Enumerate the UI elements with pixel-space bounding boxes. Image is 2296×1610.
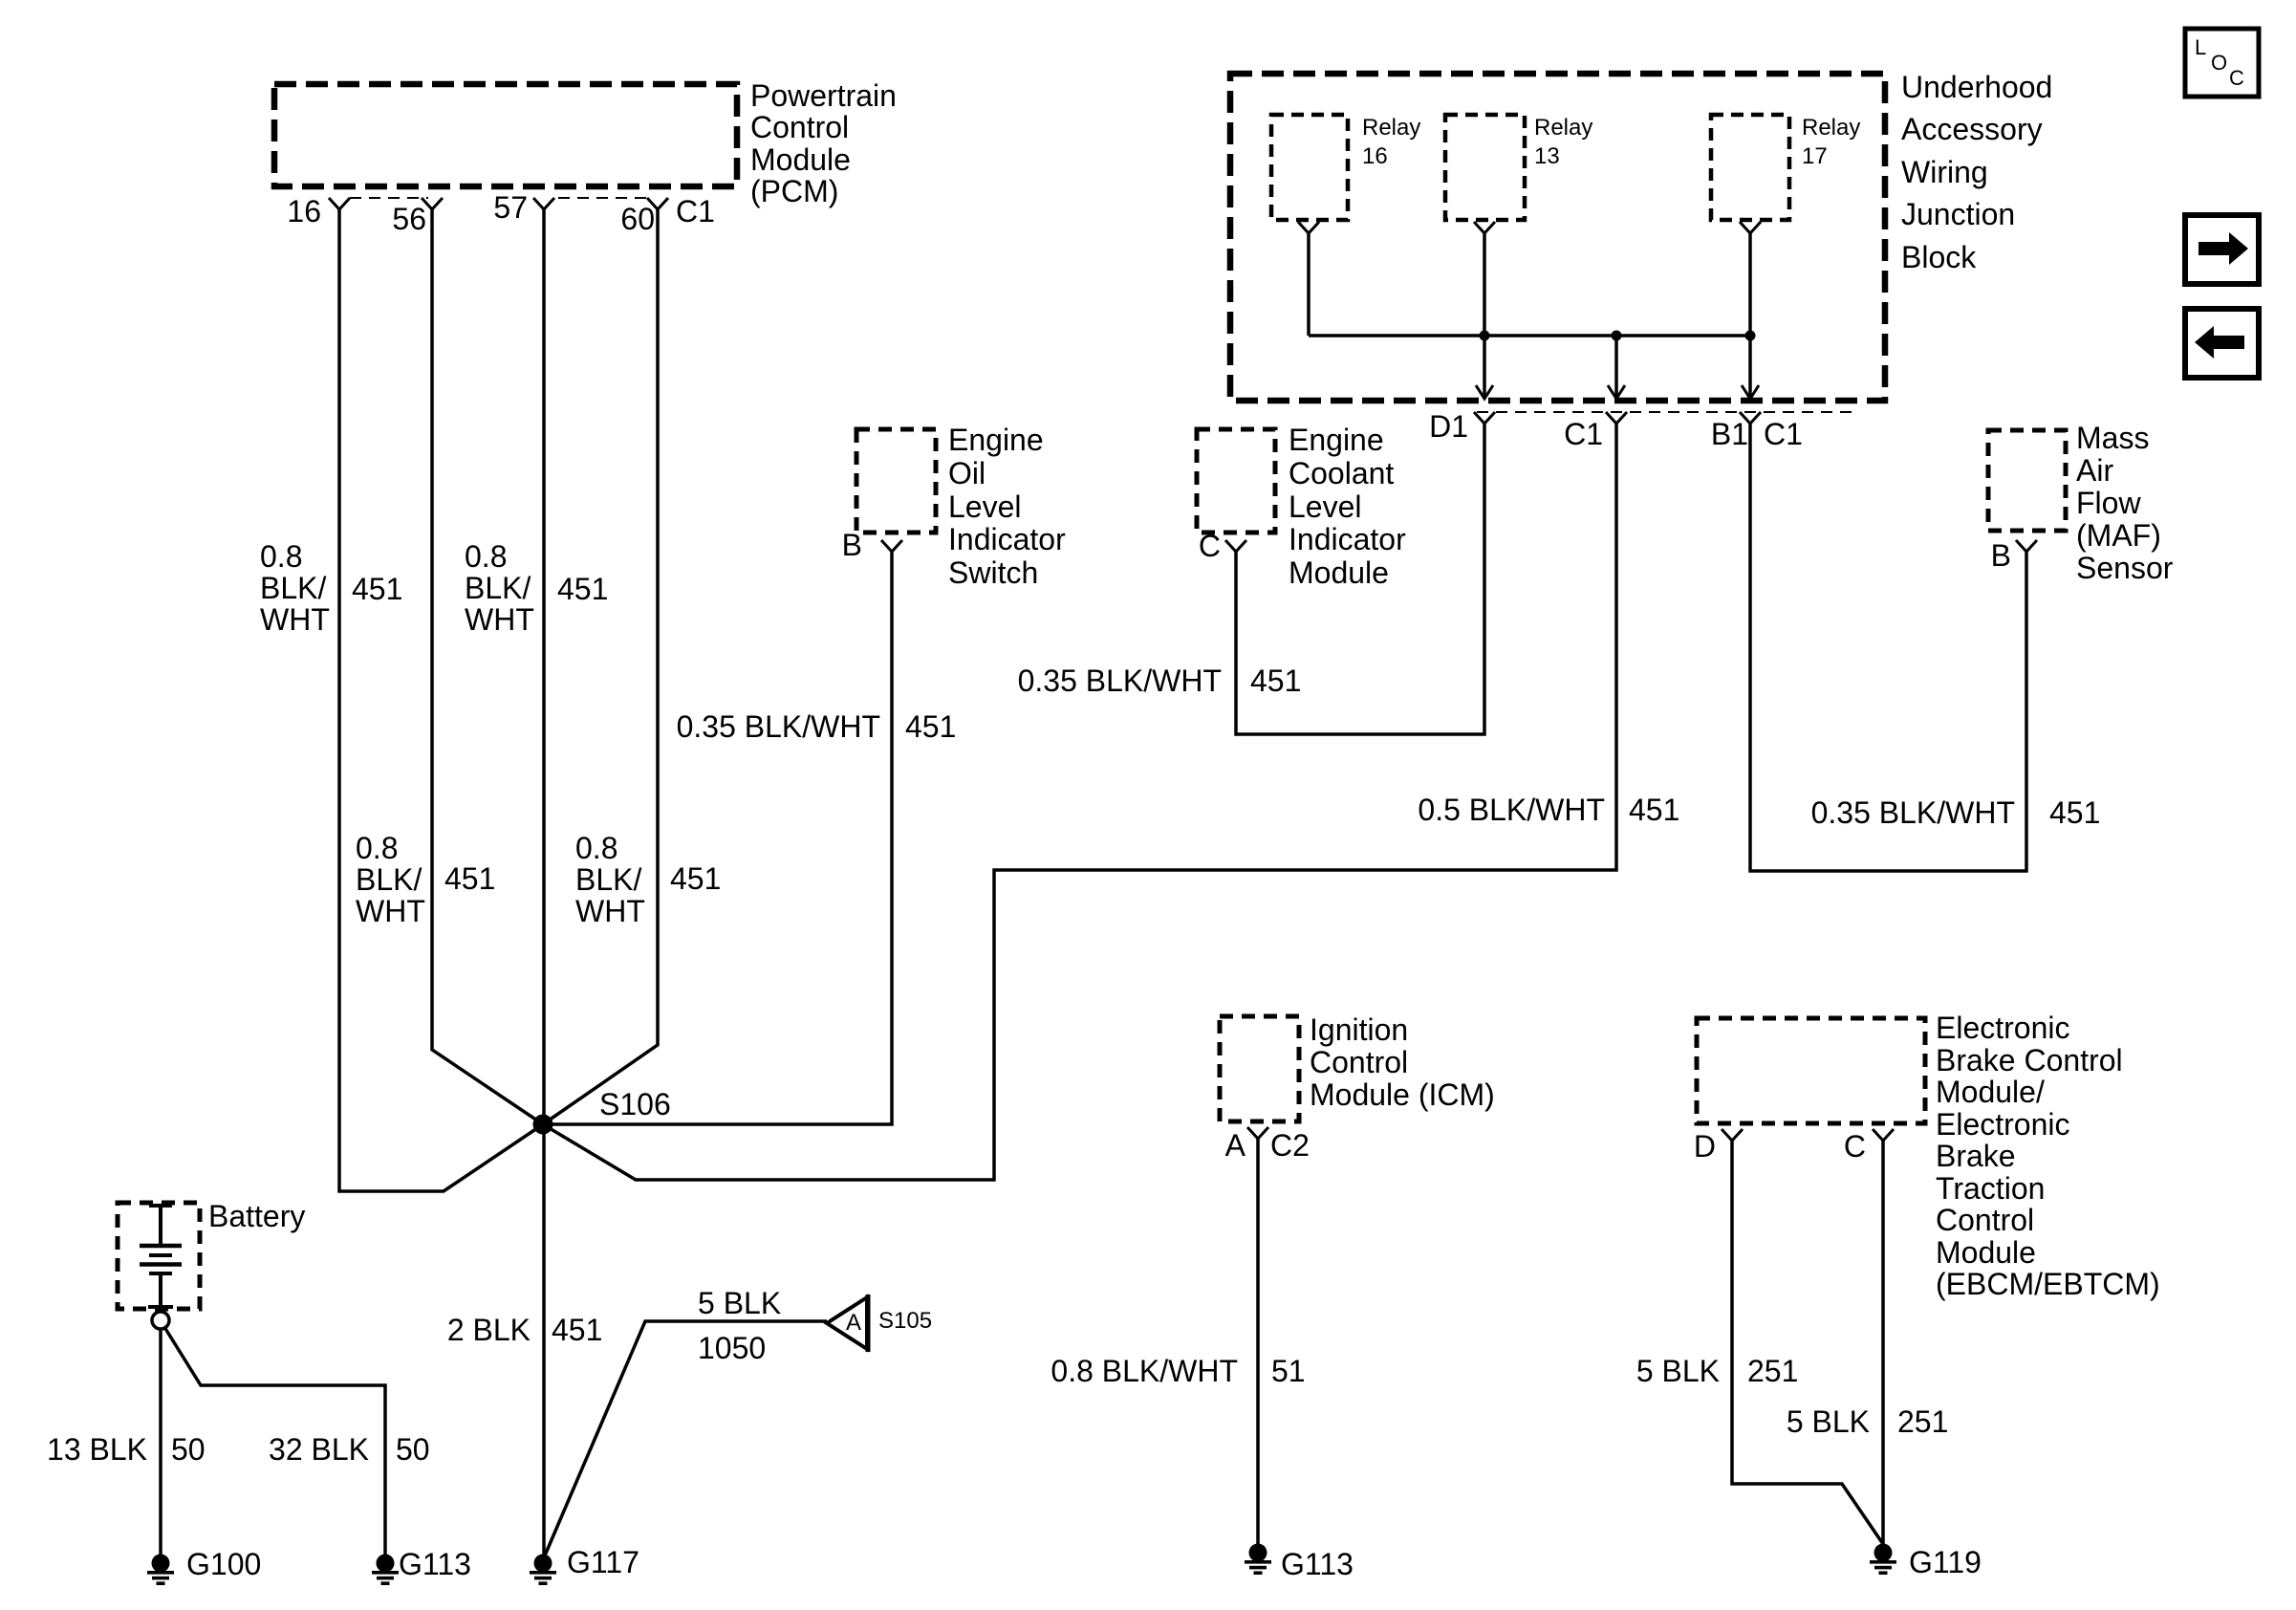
svg-text:13: 13	[1534, 143, 1560, 169]
svg-text:451: 451	[557, 572, 608, 606]
svg-text:D: D	[1694, 1129, 1716, 1164]
svg-text:A: A	[846, 1310, 861, 1336]
svg-text:(PCM): (PCM)	[750, 174, 838, 208]
svg-text:Wiring: Wiring	[1901, 155, 1988, 189]
svg-text:Coolant: Coolant	[1289, 456, 1394, 490]
relay 17 box	[1711, 115, 1860, 220]
wire relay 13 down through bus to D1 arrow	[1483, 233, 1486, 398]
wire PCM pin 16 to S106 (0.8 BLK/WHT 451)	[339, 209, 543, 1191]
svg-text:32 BLK: 32 BLK	[269, 1432, 369, 1467]
svg-text:Ignition: Ignition	[1310, 1012, 1408, 1047]
svg-text:Switch: Switch	[948, 555, 1038, 590]
svg-text:Level: Level	[1289, 490, 1362, 524]
svg-text:5 BLK: 5 BLK	[1787, 1404, 1870, 1439]
svg-text:Indicator: Indicator	[1289, 522, 1406, 556]
svg-text:0.8 BLK/WHT: 0.8 BLK/WHT	[1051, 1354, 1238, 1388]
wire bus tap down to C1 arrow	[1614, 336, 1618, 398]
svg-text:5 BLK: 5 BLK	[698, 1286, 781, 1320]
svg-text:Module (ICM): Module (ICM)	[1310, 1077, 1495, 1112]
EBCM/EBTCM box	[1697, 1011, 2160, 1301]
svg-text:0.8: 0.8	[260, 539, 302, 574]
svg-text:G100: G100	[186, 1547, 261, 1581]
svg-text:451: 451	[1250, 664, 1301, 698]
ground G113 (battery)	[372, 1547, 471, 1585]
splice connector S105 triangle	[827, 1295, 932, 1352]
Engine Coolant Level Indicator Module box	[1197, 423, 1406, 590]
svg-text:C: C	[2229, 66, 2244, 90]
svg-text:50: 50	[171, 1432, 206, 1467]
oil switch pin B	[842, 528, 902, 562]
svg-text:56: 56	[392, 202, 426, 236]
Ignition Control Module (ICM) box	[1220, 1012, 1495, 1121]
LOC icon	[2185, 29, 2259, 97]
svg-text:Indicator: Indicator	[948, 522, 1066, 556]
wire label 5 BLK 251 (pin D)	[1636, 1354, 1799, 1388]
svg-text:Control: Control	[1936, 1203, 2034, 1237]
junction connector label C1 (right)	[1764, 417, 1803, 451]
svg-text:451: 451	[444, 861, 495, 896]
ICM pin A / connector C2	[1225, 1127, 1310, 1163]
svg-text:Flow: Flow	[2076, 486, 2141, 520]
svg-text:Block: Block	[1901, 240, 1977, 274]
battery negative terminal circle	[152, 1312, 169, 1329]
arrow into B1	[1742, 385, 1759, 399]
wire PCM pin 57 to G117 (2 BLK 451)	[542, 209, 546, 1555]
svg-text:B: B	[1991, 538, 2011, 573]
svg-text:Relay: Relay	[1362, 115, 1420, 141]
svg-text:451: 451	[352, 572, 402, 606]
svg-text:B1: B1	[1711, 417, 1748, 451]
wire label 0.8 BLK/WHT 451 (pin 60 wire)	[575, 831, 721, 928]
PCM connector C1 dashed line	[350, 197, 648, 199]
svg-text:Relay: Relay	[1534, 115, 1592, 141]
wire label 32 BLK 50	[269, 1432, 430, 1467]
svg-text:BLK/: BLK/	[465, 571, 531, 605]
ground G113 (ICM)	[1245, 1544, 1354, 1582]
svg-text:C2: C2	[1270, 1128, 1310, 1163]
wire relay 16 down to bus	[1307, 233, 1310, 336]
svg-text:Control: Control	[1310, 1045, 1408, 1079]
svg-text:0.35 BLK/WHT: 0.35 BLK/WHT	[677, 709, 880, 744]
wire label 0.35 BLK/WHT 451 (MAF)	[1811, 795, 2101, 830]
Battery box	[118, 1199, 305, 1309]
wire battery to G100 (13 BLK 50)	[159, 1329, 162, 1555]
junction dot at bus/C1 tap	[1612, 331, 1622, 341]
svg-text:Module/: Module/	[1936, 1075, 2045, 1109]
svg-text:Module: Module	[750, 142, 851, 177]
svg-text:C: C	[1844, 1129, 1866, 1164]
wire label 0.8 BLK/WHT 451 (pin 56 wire)	[356, 831, 495, 928]
svg-text:(EBCM/EBTCM): (EBCM/EBTCM)	[1936, 1267, 2160, 1301]
svg-text:C1: C1	[1764, 417, 1803, 451]
svg-text:(MAF): (MAF)	[2076, 518, 2161, 553]
EBCM pin C	[1844, 1129, 1894, 1164]
svg-text:0.35 BLK/WHT: 0.35 BLK/WHT	[1018, 664, 1222, 698]
splice S106	[533, 1087, 671, 1135]
svg-text:Powertrain: Powertrain	[750, 78, 897, 113]
svg-text:WHT: WHT	[575, 894, 645, 928]
svg-text:WHT: WHT	[465, 602, 534, 637]
svg-text:0.8: 0.8	[465, 539, 507, 574]
relay 13 box	[1445, 115, 1592, 220]
wire label 0.8 BLK/WHT 51	[1051, 1354, 1305, 1388]
svg-text:Battery: Battery	[208, 1199, 305, 1233]
MAF pin B	[1991, 538, 2037, 573]
PCM pin 16	[287, 194, 350, 228]
wire PCM pin 56 to S106 (0.8 BLK/WHT 451)	[432, 209, 543, 1124]
svg-text:G113: G113	[1281, 1547, 1354, 1581]
svg-text:251: 251	[1747, 1354, 1798, 1388]
svg-text:Engine: Engine	[948, 423, 1044, 457]
PCM pin 57	[493, 190, 554, 225]
relay 17 pin Y	[1740, 222, 1761, 233]
wire label 5 BLK / 1050	[698, 1286, 781, 1365]
svg-text:WHT: WHT	[356, 894, 425, 928]
svg-text:451: 451	[670, 861, 721, 896]
arrow into C1	[1608, 385, 1625, 399]
svg-text:Brake: Brake	[1936, 1139, 2016, 1173]
arrow into D1	[1476, 385, 1493, 399]
svg-text:451: 451	[552, 1313, 602, 1347]
svg-text:A: A	[1225, 1128, 1246, 1163]
junction block connector dashed line	[1477, 411, 1857, 413]
PCM module box: Powertrain Control Module	[274, 78, 897, 208]
svg-text:451: 451	[905, 709, 956, 744]
Underhood Accessory Wiring Junction Block box	[1230, 70, 2052, 401]
bus wire inside junction block	[1309, 334, 1750, 337]
svg-text:Air: Air	[2076, 453, 2113, 488]
svg-text:C1: C1	[676, 194, 715, 228]
PCM pin 60	[620, 198, 668, 236]
wire ICM A to G113 (0.8 BLK/WHT 51)	[1256, 1139, 1260, 1544]
svg-text:60: 60	[620, 202, 655, 236]
svg-text:0.5 BLK/WHT: 0.5 BLK/WHT	[1418, 793, 1605, 827]
svg-text:0.8: 0.8	[575, 831, 617, 865]
wire relay 17 down through bus to B1 arrow	[1748, 233, 1752, 398]
junction dot at bus/relay17	[1745, 331, 1756, 341]
Mass Air Flow (MAF) Sensor box	[1988, 421, 2174, 585]
wire label 0.8 BLK/WHT 451 (pin 16 wire)	[260, 539, 402, 637]
svg-text:Accessory: Accessory	[1901, 112, 2043, 146]
svg-text:G117: G117	[567, 1545, 639, 1579]
ground G117	[530, 1545, 639, 1585]
svg-text:D1: D1	[1429, 409, 1468, 444]
PCM connector label C1	[676, 194, 715, 228]
wire label 5 BLK 251 (pin C)	[1787, 1404, 1949, 1439]
PCM pin 56	[392, 198, 443, 236]
svg-text:13 BLK: 13 BLK	[47, 1432, 147, 1467]
svg-text:451: 451	[1629, 793, 1679, 827]
svg-text:BLK/: BLK/	[260, 571, 326, 605]
svg-text:S106: S106	[599, 1087, 671, 1121]
svg-text:Traction: Traction	[1936, 1171, 2045, 1206]
svg-text:Oil: Oil	[948, 456, 986, 490]
svg-text:Module: Module	[1936, 1235, 2036, 1270]
battery symbol	[140, 1206, 182, 1307]
Engine Oil Level Indicator Switch box	[856, 423, 1066, 590]
svg-text:Junction: Junction	[1901, 197, 2015, 231]
junction pin B1	[1711, 412, 1761, 451]
svg-text:5 BLK: 5 BLK	[1636, 1354, 1720, 1388]
svg-text:C: C	[1199, 529, 1221, 563]
ground G100	[147, 1547, 261, 1585]
wire junction B1 to MAF sensor B (0.35 BLK/WHT 451)	[1750, 424, 2026, 871]
svg-text:BLK/: BLK/	[356, 862, 422, 897]
svg-text:Brake Control: Brake Control	[1936, 1043, 2123, 1077]
junction pin D1	[1429, 409, 1495, 444]
wire label 0.8 BLK/WHT 451 (pin 57 wire)	[465, 539, 608, 637]
svg-text:16: 16	[287, 194, 321, 228]
svg-text:Mass: Mass	[2076, 421, 2149, 455]
wire battery to G113 (32 BLK 50)	[164, 1327, 385, 1555]
junction pin C1 (middle)	[1564, 412, 1627, 451]
svg-text:B: B	[842, 528, 862, 562]
coolant module pin C	[1199, 529, 1246, 563]
wire oil switch B to S106 (0.35 BLK/WHT 451)	[543, 552, 892, 1124]
svg-text:Level: Level	[948, 490, 1022, 524]
svg-text:C1: C1	[1564, 417, 1603, 451]
svg-text:S105: S105	[878, 1308, 932, 1334]
wire label 13 BLK 50	[47, 1432, 206, 1467]
relay 13 pin Y	[1474, 222, 1495, 233]
svg-text:L: L	[2195, 35, 2206, 59]
relay 16 box	[1271, 115, 1420, 220]
wire PCM pin 60 to S106 (0.8 BLK/WHT 451)	[543, 209, 658, 1124]
svg-text:57: 57	[493, 190, 528, 225]
svg-text:16: 16	[1362, 143, 1388, 169]
svg-text:G113: G113	[399, 1547, 471, 1581]
svg-text:17: 17	[1802, 143, 1828, 169]
svg-text:451: 451	[2049, 795, 2100, 830]
svg-text:51: 51	[1271, 1354, 1306, 1388]
wire EBCM D to G119 (5 BLK 251)	[1732, 1141, 1883, 1544]
wire coolant C to junction D1 (0.35 BLK/WHT 451)	[1236, 424, 1484, 734]
wire junction C1 to S106 (0.5 BLK/WHT 451)	[543, 424, 1616, 1180]
wire EBCM C to G119 (5 BLK 251)	[1881, 1141, 1885, 1544]
svg-text:O: O	[2211, 51, 2227, 75]
wire to S105 (5 BLK 1050)	[545, 1321, 827, 1556]
wire label 0.35 BLK/WHT 451 (oil switch)	[677, 709, 957, 744]
svg-text:50: 50	[396, 1432, 430, 1467]
svg-text:2 BLK: 2 BLK	[447, 1313, 531, 1347]
svg-text:WHT: WHT	[260, 602, 330, 637]
svg-text:Sensor: Sensor	[2076, 551, 2174, 585]
svg-text:G119: G119	[1909, 1545, 1982, 1579]
svg-text:Relay: Relay	[1802, 115, 1860, 141]
svg-text:Electronic: Electronic	[1936, 1107, 2070, 1142]
svg-text:251: 251	[1897, 1404, 1948, 1439]
wire label 2 BLK 451	[447, 1313, 603, 1347]
ground G119	[1870, 1544, 1982, 1580]
EBCM pin D	[1694, 1129, 1743, 1164]
svg-text:Engine: Engine	[1289, 423, 1384, 457]
wire label 0.35 BLK/WHT 451 (coolant)	[1018, 664, 1302, 698]
svg-text:Electronic: Electronic	[1936, 1011, 2070, 1045]
left arrow icon	[2185, 309, 2259, 378]
svg-text:Module: Module	[1289, 555, 1389, 590]
svg-text:Underhood: Underhood	[1901, 70, 2052, 104]
svg-text:Control: Control	[750, 110, 849, 144]
relay 16 pin Y	[1298, 222, 1319, 233]
svg-text:0.8: 0.8	[356, 831, 398, 865]
junction dot at bus/relay13	[1480, 331, 1490, 341]
svg-text:BLK/: BLK/	[575, 862, 641, 897]
wire label 0.5 BLK/WHT 451	[1418, 793, 1679, 827]
svg-text:1050: 1050	[698, 1331, 766, 1365]
svg-text:0.35 BLK/WHT: 0.35 BLK/WHT	[1811, 795, 2015, 830]
right arrow icon	[2185, 215, 2259, 284]
